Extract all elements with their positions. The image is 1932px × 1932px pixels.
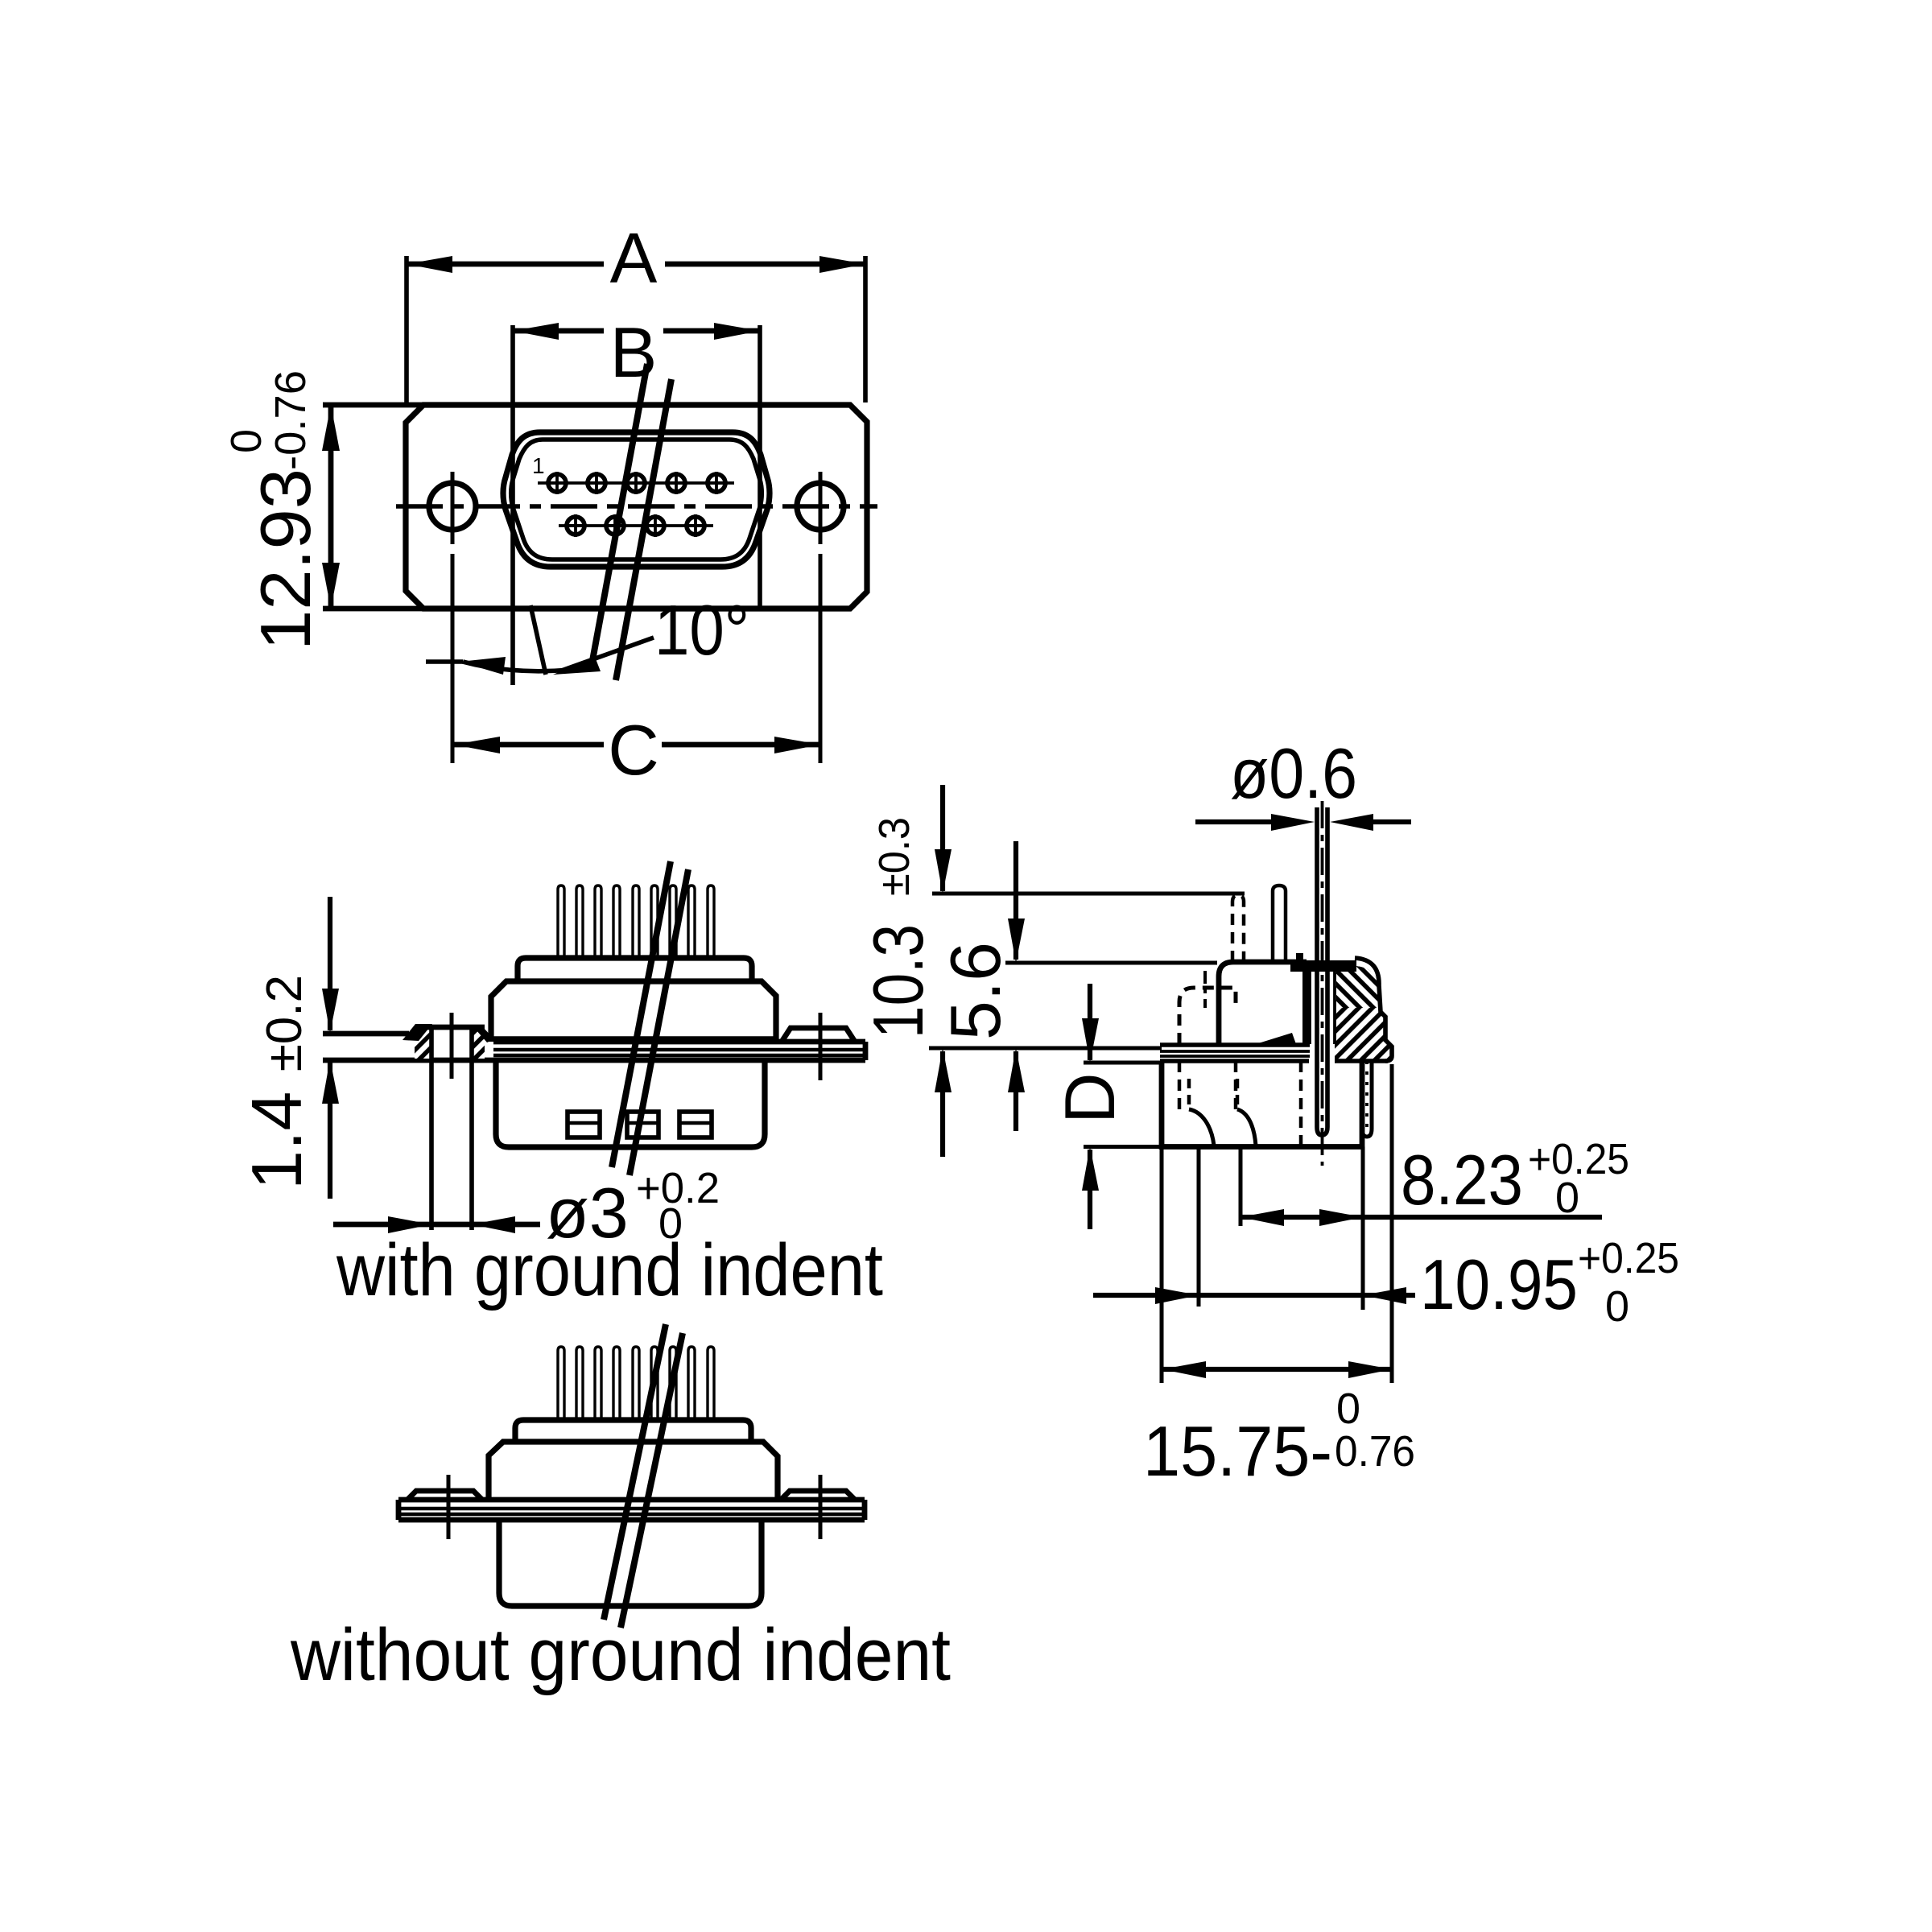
arrowhead d0.6 right [1330, 814, 1373, 831]
arrowhead B right [714, 323, 760, 340]
svg-text:ø0.6: ø0.6 [1230, 733, 1357, 813]
arrowhead 5.6 down [1008, 919, 1025, 963]
dimension C line [454, 742, 604, 748]
svg-text:0: 0 [1555, 1174, 1579, 1222]
extension line y=1195 (insulator top, for 5.6) [1005, 961, 1217, 965]
svg-text:B: B [610, 312, 658, 392]
svg-text:0: 0 [1336, 1385, 1360, 1433]
arrowhead of leader [553, 657, 601, 675]
shell outer outline right [1355, 958, 1392, 1061]
dimension diameter-3 line [333, 1222, 540, 1228]
10 degree slanted line [530, 605, 546, 675]
dimension D upper line [1088, 984, 1092, 1060]
extension line x=1489 below body [1197, 1147, 1201, 1307]
bottom pin row line [559, 524, 713, 527]
lower body (view 2) [496, 1061, 765, 1147]
insulator block (view 3) [515, 1420, 751, 1442]
black top bar of shell [1290, 960, 1356, 972]
arrowhead D up [1082, 1147, 1099, 1191]
extension line y=1110 (hidden pin top, for 10.3) [932, 892, 1245, 896]
extension line x=1541 below body [1239, 1147, 1243, 1227]
svg-text:5.6: 5.6 [935, 942, 1015, 1040]
hatched upper-right corner block (opposite direction) [1336, 966, 1379, 1008]
extension line y=1424.5 short (body bottom, for D) [1084, 1145, 1160, 1149]
flange plate stripes [398, 1507, 865, 1511]
left mounting centerline (view 3) [447, 1475, 451, 1539]
left tab (view 3) [407, 1491, 482, 1500]
right tab (view 3) [781, 1491, 855, 1500]
arrowhead 1.4 up [322, 1059, 339, 1104]
shell bottom edge on plate [491, 1036, 776, 1041]
right tab (view 2) [782, 1028, 855, 1042]
extension line y=1320 (plate bottom, for D) [1084, 1061, 1160, 1065]
flange plate bottom line [323, 1058, 865, 1063]
arrowhead d3 pointing right [388, 1216, 431, 1233]
arrowhead C left [454, 737, 500, 753]
right mounting hole centerline (view 2) [819, 1013, 823, 1080]
arrowhead 5.6 up [1008, 1048, 1025, 1092]
dimension 10.3 lower line [940, 1051, 945, 1157]
arrowhead A left [407, 256, 452, 273]
arrowhead 10.95 right (pointing left) [1363, 1287, 1406, 1304]
flange plate top line right of boss [493, 1039, 865, 1045]
dimension 1.4 lower line [328, 1063, 332, 1199]
boss left bevel (thick black wedge) [402, 1024, 432, 1041]
arrowhead 15.75 right (pointing right) [1348, 1361, 1392, 1378]
solder wire lines with U bottom [1317, 807, 1327, 1135]
arrowhead C right [774, 737, 820, 753]
leader line from 10deg label [557, 638, 654, 672]
arrowhead B left [513, 323, 559, 340]
arrowhead D down [1082, 1018, 1099, 1063]
arrowhead on arc left end [460, 657, 506, 675]
dimension 15.75 line [1162, 1367, 1392, 1372]
dimension D lower line [1088, 1150, 1092, 1229]
left mounting hole centerline (view 2) [450, 1013, 454, 1079]
hidden pin dashed (view 4) [1232, 895, 1244, 962]
svg-text:D: D [1050, 1072, 1129, 1124]
dimension 8.23 line [1241, 1215, 1602, 1220]
D-sub shell outer outline [503, 432, 770, 567]
ground indent hole edge right (extends to dimension) [469, 1027, 474, 1230]
extension line y=1302 (plate top, for 10.3 and 5.6) [929, 1046, 1162, 1051]
svg-text:8.23: 8.23 [1401, 1140, 1523, 1220]
right boss strip below plate [1362, 1061, 1372, 1137]
insulator block (side view) [518, 958, 752, 981]
channel inner edges [1308, 967, 1311, 1044]
right mounting centerline (view 3) [819, 1475, 823, 1539]
flange plate right end cap [863, 1042, 869, 1060]
hidden hole dashed line right [1234, 1061, 1238, 1109]
lower body (view 4) [1162, 1061, 1362, 1147]
D-sub shell inner outline [511, 440, 762, 559]
ground indent boss hatched right part [472, 1029, 485, 1059]
arrowhead 10.3 up [935, 1048, 952, 1092]
dimension B extension line right [758, 325, 762, 610]
svg-text:10.3: 10.3 [858, 924, 938, 1038]
arrowhead 10.95 left (pointing right) [1155, 1287, 1199, 1304]
right boss hidden dotted line [1365, 1061, 1368, 1133]
break line pair (view 3) [604, 1324, 666, 1620]
svg-text:10°: 10° [654, 590, 749, 670]
svg-text:0: 0 [222, 429, 270, 453]
svg-text:0: 0 [1605, 1282, 1629, 1331]
dimension A extension line left [404, 256, 409, 402]
svg-text:C: C [608, 710, 659, 790]
boss right bevel [476, 1026, 494, 1042]
arrowhead 15.75 left (pointing left) [1162, 1361, 1206, 1378]
lower body (view 3) [499, 1520, 762, 1606]
flange plate stripes (view 4) [1160, 1050, 1310, 1053]
arrowhead 10.3 down [935, 849, 952, 894]
dimension 10.95 line [1093, 1293, 1415, 1298]
right mounting hole [797, 483, 844, 530]
svg-text:0.76: 0.76 [1335, 1427, 1415, 1476]
dimension A extension line right [863, 256, 868, 402]
extension line left of flange bottom (for 12.93) [323, 606, 423, 612]
break line pair (view 2) [612, 861, 671, 1167]
flange plate bottom line [398, 1517, 865, 1523]
left mounting hole vertical centerline + C extension [451, 472, 455, 544]
left mounting hole [429, 483, 476, 530]
arrowhead d0.6 left [1271, 814, 1315, 831]
svg-text:without ground indent: without ground indent [290, 1614, 951, 1696]
metal shell (view 3) [489, 1442, 778, 1500]
flange outline (front view) [406, 405, 867, 609]
svg-text:10.95: 10.95 [1420, 1245, 1578, 1324]
extension line x=1693 below body [1361, 1147, 1365, 1311]
svg-text:with ground indent: with ground indent [336, 1229, 883, 1311]
hidden ground boss dashed (view 4) [1179, 988, 1236, 1044]
extension line x=1729 below shell foot [1390, 1064, 1394, 1383]
solder pins (side view, with ground indent) [558, 885, 714, 958]
svg-text:-0.76: -0.76 [266, 370, 315, 470]
arrowhead 8.23 right (pointing right) [1319, 1209, 1363, 1226]
wire channel (white) [1310, 962, 1335, 1141]
svg-text:+0.25: +0.25 [1578, 1234, 1679, 1282]
relief notch right [1237, 1109, 1256, 1146]
indent window 3 [679, 1112, 712, 1137]
arrowhead 12.93 bottom [322, 563, 340, 609]
ground indent hole edge left (extends to dimension) [429, 1027, 434, 1230]
flange plate right end cap [862, 1500, 868, 1520]
pins (bottom row 6-9) [564, 514, 707, 537]
relief notch left [1189, 1109, 1214, 1146]
arrowhead 8.23 left (pointing left) [1241, 1209, 1284, 1226]
svg-text:A: A [610, 218, 658, 298]
insulator block (view 4) [1219, 962, 1307, 1044]
right mounting hole vertical centerline + C extension [819, 472, 823, 544]
ground indent boss hatched left part [415, 1029, 431, 1059]
arrowhead 12.93 top [322, 405, 340, 451]
solder pins (side view, without ground indent) [558, 1347, 714, 1420]
hidden hole dashed line left [1178, 1061, 1182, 1109]
section sliver black wedge on plate [1256, 1033, 1296, 1044]
dimension B extension line left (continues down as 10deg wedge line) [510, 325, 515, 685]
black column left of wire channel [1302, 964, 1311, 1046]
dimension 5.6 lower line [1013, 1051, 1018, 1131]
hatched shell cross-section [1307, 966, 1390, 1061]
svg-text:15.75-: 15.75- [1143, 1411, 1332, 1491]
hidden channel dashed line [1299, 1061, 1303, 1146]
10 degree arc [463, 662, 597, 671]
extension line left of flange top (for 12.93) [323, 402, 423, 408]
wire centerline dash-dot [1321, 801, 1324, 1166]
flange plate (view 3) top line [398, 1497, 865, 1503]
svg-text:1: 1 [532, 453, 545, 478]
dimension 5.6 upper line [1013, 841, 1018, 960]
indent window 2 [627, 1112, 658, 1137]
svg-text:±0.3: ±0.3 [870, 817, 919, 896]
arrowhead A right [819, 256, 865, 273]
svg-text:12.93: 12.93 [246, 469, 325, 650]
flange plate left end cap [396, 1500, 402, 1520]
hidden boss centerline tick [1203, 971, 1207, 1008]
top pin row line [538, 481, 734, 485]
10 degree arc tail [426, 659, 463, 664]
flange plate inner stripe lines [493, 1048, 863, 1052]
arrowhead 1.4 down [322, 989, 339, 1033]
dimension d0.6 line [1195, 819, 1298, 824]
solid pin (view 4) [1273, 885, 1286, 962]
metal shell (side view) [491, 981, 776, 1042]
horizontal centerline through holes (dash-dot) [396, 504, 877, 509]
flange plate bottom line (view 4) [1160, 1059, 1309, 1063]
dimension 12.93 vertical line [328, 407, 334, 606]
flange plate (view 4) top line [1160, 1042, 1310, 1047]
dimension A line [407, 262, 604, 267]
break line pair (view 1) [592, 364, 647, 665]
pins (top row 1-5) [546, 472, 728, 494]
dimension 1.4 upper line [328, 897, 332, 1030]
dimension B line [513, 328, 604, 334]
indent window 1 [568, 1112, 600, 1137]
extension line x=1443 below body [1160, 1147, 1164, 1384]
dimension 10.3 upper line [940, 785, 945, 891]
flange plate top line left of boss [323, 1031, 409, 1037]
boss top edge [416, 1025, 485, 1030]
arrowhead d3 pointing left [472, 1216, 515, 1233]
